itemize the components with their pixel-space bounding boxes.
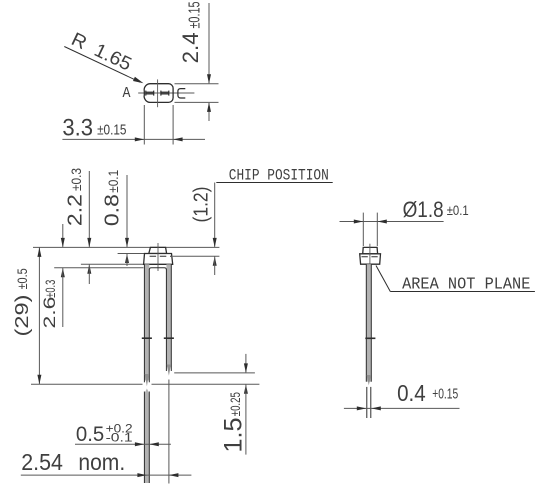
top view lead 1 mark <box>146 91 154 96</box>
label AREA NOT PLANE <box>402 275 530 294</box>
dim 3.3 tolerance <box>97 121 126 138</box>
svg-text:±0.3: ±0.3 <box>68 168 84 191</box>
dim 2.4 value <box>178 32 203 63</box>
svg-text:-0.1: -0.1 <box>106 431 133 445</box>
dim 3.3 extension lines <box>144 105 173 145</box>
front view package flange <box>144 254 173 265</box>
dim 0.8 value <box>101 194 123 226</box>
svg-text:CHIP POSITION: CHIP POSITION <box>229 166 329 184</box>
dim 0.4 tolerance <box>432 387 458 403</box>
dim dia1.8 value <box>403 197 444 222</box>
front view package-top extension line <box>33 246 219 248</box>
dim 0.4 dimension line <box>344 407 460 409</box>
svg-text:AREA NOT PLANE: AREA NOT PLANE <box>402 275 530 294</box>
dim 2.54 nom label <box>78 449 125 475</box>
dim (1.2) line upper <box>213 183 217 248</box>
dim 0.5 tolerance minus <box>106 431 133 445</box>
dim 3.3 arrows <box>135 137 183 141</box>
dim dia1.8 dimension line <box>340 221 444 223</box>
top view C mark <box>178 89 185 98</box>
dim (29) dimension line <box>38 247 40 384</box>
svg-text:0.4: 0.4 <box>397 380 426 406</box>
svg-text:3.3: 3.3 <box>62 115 93 142</box>
dim 3.3 dimension line <box>62 138 205 140</box>
dim 2.6 value <box>40 297 59 329</box>
dim 2.6 line upper <box>61 224 65 247</box>
label R 1.65 <box>68 29 135 76</box>
dim (29) tolerance <box>14 268 30 289</box>
dim 0.5 dimension line <box>75 443 171 445</box>
dim 0.8 tolerance <box>105 170 121 193</box>
front view chip position dashed line <box>150 255 171 257</box>
svg-text:±0.15: ±0.15 <box>186 2 203 29</box>
front view left lead crimp tick <box>142 337 152 339</box>
radius leader line R1.65 <box>64 47 143 84</box>
svg-text:±0.1: ±0.1 <box>447 202 469 218</box>
CHIP POSITION underline <box>216 182 332 184</box>
svg-text:±0.25: ±0.25 <box>227 392 243 416</box>
dim 0.4 value <box>397 380 426 406</box>
svg-text:±0.5: ±0.5 <box>14 268 30 289</box>
top view package outline (rounded body) <box>144 84 173 103</box>
svg-text:0.5: 0.5 <box>76 422 104 446</box>
dim 2.4 arrows <box>207 74 211 112</box>
svg-text:2.2: 2.2 <box>64 194 86 226</box>
dim 2.2 line upper <box>87 171 91 247</box>
side view lead upper segment <box>366 264 371 385</box>
front view flange-bottom extension line <box>81 263 144 265</box>
side view lead lower segment <box>367 387 371 418</box>
right lead vertical extension line <box>168 380 170 484</box>
dim 0.4 arrows <box>357 406 381 410</box>
dim 2.54 value <box>21 449 63 475</box>
svg-text:1.5: 1.5 <box>220 418 248 453</box>
top view vertical centerline <box>157 79 159 107</box>
dim (29) value <box>11 295 32 337</box>
front view right lead crimp tick <box>164 337 174 339</box>
dim 2.54 arrows <box>137 473 178 477</box>
side view chip position dashed line <box>362 256 380 258</box>
svg-text:(1.2): (1.2) <box>191 187 213 223</box>
dim (1.2) line lower <box>213 256 217 275</box>
front view vertical centerline <box>157 243 159 271</box>
front view package top part <box>149 247 167 253</box>
dim 0.5 value <box>76 422 104 446</box>
dim dia1.8 extension lines <box>363 213 377 246</box>
dim 1.5 dimension line <box>244 354 248 455</box>
AREA NOT PLANE leader <box>376 266 390 292</box>
svg-text:±0.15: ±0.15 <box>97 121 126 138</box>
svg-text:A: A <box>123 85 131 102</box>
dim 2.2 tolerance <box>68 168 84 191</box>
dim 0.5 arrows <box>135 442 159 446</box>
side view lead crimp tick <box>365 337 375 339</box>
chip position extension line <box>173 255 220 257</box>
dim 2.6 line lower <box>61 268 65 327</box>
front view left lead upper segment <box>144 264 149 386</box>
top view horizontal centerline <box>138 92 194 94</box>
svg-text:2.54: 2.54 <box>21 449 63 475</box>
front view right lead upper segment <box>166 264 171 375</box>
dim 0.5 tolerance plus <box>106 421 133 435</box>
svg-text:±0.1: ±0.1 <box>105 170 121 193</box>
dim 2.54 dimension line <box>21 474 192 476</box>
front view left lead lower segment <box>144 389 149 484</box>
short lead tip extension line <box>174 372 255 374</box>
svg-text:+0.15: +0.15 <box>432 387 458 403</box>
dim 0.8 line upper <box>125 175 129 247</box>
dim dia1.8 arrows <box>354 220 387 224</box>
dim 2.2 line lower <box>87 264 91 284</box>
dim 3.3 value <box>62 115 93 142</box>
label A <box>123 85 131 102</box>
svg-text:±0.3: ±0.3 <box>43 280 58 298</box>
side view package top part <box>363 247 378 253</box>
top view lead 2 mark <box>161 91 169 96</box>
long lead tip line <box>31 383 259 385</box>
side view package flange <box>360 254 381 264</box>
front view flange-top extension line <box>118 253 146 255</box>
front view web-bottom extension line <box>54 267 143 269</box>
svg-text:nom.: nom. <box>78 449 125 475</box>
dim 2.2 value <box>64 194 86 226</box>
front view web between leads <box>149 268 166 270</box>
svg-text:0.8: 0.8 <box>101 194 123 226</box>
dim 1.5 tolerance <box>227 392 243 416</box>
svg-text:Ø1.8: Ø1.8 <box>403 197 444 222</box>
dim 1.5 value <box>220 418 248 453</box>
dim 0.8 line lower <box>125 254 129 267</box>
side view vertical centerline <box>369 244 371 267</box>
dim 2.4 dimension line <box>208 3 210 121</box>
svg-text:2.6: 2.6 <box>40 297 59 329</box>
dim 2.6 tolerance <box>43 280 58 298</box>
AREA NOT PLANE underline <box>390 291 535 293</box>
svg-text:2.4: 2.4 <box>178 32 203 63</box>
dim (29) arrows <box>37 247 41 384</box>
dim 2.4 tolerance <box>186 2 203 29</box>
dim (1.2) value <box>191 187 213 223</box>
dim 2.4 extension lines <box>175 84 219 103</box>
svg-text:(29): (29) <box>11 295 32 337</box>
dim dia1.8 tolerance <box>447 202 469 218</box>
label CHIP POSITION <box>229 166 329 184</box>
